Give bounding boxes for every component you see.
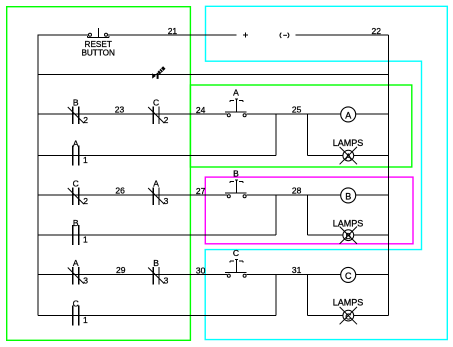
svg-text:31: 31	[292, 265, 302, 275]
pushbutton A (NO momentary) A	[225, 99, 246, 117]
svg-text:21: 21	[168, 26, 178, 36]
pushbutton RESET (NO)	[88, 28, 110, 37]
battery + terminal	[243, 34, 248, 36]
svg-text:1: 1	[83, 234, 88, 244]
contact A3 (NC) C	[68, 267, 84, 285]
wire rung1 right segment	[295, 34, 388, 36]
highlight box green inner (rung A zone)	[190, 85, 411, 167]
wire rung B segment 2	[246, 194, 340, 196]
relay coil A A	[341, 107, 356, 122]
contact B3 (NC) C	[148, 267, 164, 285]
highlight outline cyan (spiral fence)	[205, 6, 447, 339]
svg-text:B: B	[345, 192, 351, 202]
contact C2 (NC) B	[68, 188, 84, 206]
svg-text:A: A	[73, 258, 79, 268]
wire lamp branch drop C	[307, 275, 309, 316]
wire seal-in rung A	[38, 154, 276, 156]
contact A3 (NC) B	[148, 188, 164, 206]
wire rung C segment 3	[356, 274, 389, 276]
svg-text:LAMPS: LAMPS	[333, 298, 364, 308]
svg-text:LAMPS: LAMPS	[333, 219, 364, 229]
relay coil C C	[341, 267, 356, 282]
pushbutton C (NO momentary) C	[225, 260, 246, 278]
wire seal-in branch drop C	[275, 275, 277, 316]
wire rung A segment 3	[356, 113, 389, 115]
svg-text:1: 1	[83, 155, 88, 165]
wire seal-in rung C	[38, 314, 276, 316]
left power bus wire	[37, 35, 39, 316]
overload flag symbol on rung2	[152, 68, 164, 79]
wire lamp row B right	[354, 234, 389, 236]
svg-text:A: A	[233, 88, 239, 98]
svg-text:2: 2	[164, 115, 169, 125]
svg-text:A: A	[345, 111, 351, 121]
wire lamp row A left	[308, 154, 344, 156]
wire lamp row C left	[308, 314, 344, 316]
indicator lamp A A	[340, 147, 357, 164]
wire lamp row C right	[354, 314, 389, 316]
svg-text:A: A	[345, 151, 351, 161]
svg-text:22: 22	[372, 26, 382, 36]
svg-text:29: 29	[116, 265, 126, 275]
svg-text:28: 28	[292, 186, 302, 196]
indicator lamp B B	[340, 227, 357, 244]
indicator lamp C C	[340, 307, 357, 324]
wire rung A segment 1	[38, 113, 227, 115]
svg-text:3: 3	[164, 276, 169, 286]
svg-text:B: B	[153, 258, 159, 268]
svg-text:C: C	[345, 311, 351, 321]
wire rung B segment 3	[356, 194, 389, 196]
wire rung2	[38, 74, 389, 76]
pushbutton B (NO momentary) B	[225, 180, 246, 198]
contact B2 (NC) A	[68, 107, 84, 125]
svg-text:C: C	[73, 298, 79, 308]
wire rung1 middle segment	[108, 34, 237, 36]
svg-text:LAMPS: LAMPS	[333, 138, 364, 148]
wire rung C segment 1	[38, 274, 227, 276]
wire seal-in branch drop B	[275, 195, 277, 235]
highlight box magenta (rung B zone)	[205, 177, 413, 244]
svg-text:A: A	[73, 138, 79, 148]
svg-text:B: B	[345, 231, 351, 241]
svg-text:A: A	[153, 178, 159, 188]
wire lamp row B left	[308, 234, 344, 236]
wire lamp branch drop A	[307, 114, 309, 155]
svg-text:23: 23	[115, 104, 125, 114]
svg-text:2: 2	[83, 115, 88, 125]
svg-text:2: 2	[83, 196, 88, 206]
wire rung A segment 2	[246, 113, 340, 115]
wire rung B segment 1	[38, 194, 227, 196]
svg-text:BUTTON: BUTTON	[81, 49, 115, 58]
contact B1 (NO) B	[73, 225, 79, 245]
wire seal-in branch drop A	[275, 114, 277, 155]
wire rung1 left segment	[38, 34, 88, 36]
wire rung C segment 2	[246, 274, 340, 276]
svg-text:B: B	[73, 218, 79, 228]
svg-text:25: 25	[292, 105, 302, 115]
svg-text:27: 27	[196, 186, 206, 196]
svg-text:B: B	[233, 169, 239, 179]
relay coil B B	[341, 188, 356, 203]
wire lamp row A right	[354, 154, 389, 156]
contact C1 (NO) C	[73, 305, 79, 325]
battery (-) terminal	[280, 33, 289, 38]
svg-text:3: 3	[164, 196, 169, 206]
svg-text:24: 24	[196, 105, 206, 115]
svg-text:B: B	[73, 97, 79, 107]
svg-text:1: 1	[83, 315, 88, 325]
wire lamp branch drop B	[307, 195, 309, 235]
svg-text:30: 30	[196, 266, 206, 276]
right power bus wire	[388, 35, 390, 315]
contact A1 (NO) A	[73, 145, 79, 165]
highlight box green outer (left)	[7, 7, 191, 341]
contact C2 (NC) A	[148, 107, 164, 125]
wire seal-in rung B	[38, 234, 276, 236]
svg-text:26: 26	[115, 185, 125, 195]
svg-text:C: C	[73, 178, 79, 188]
svg-text:C: C	[345, 271, 352, 281]
svg-text:3: 3	[83, 276, 88, 286]
svg-text:C: C	[233, 248, 239, 258]
svg-text:C: C	[153, 97, 159, 107]
